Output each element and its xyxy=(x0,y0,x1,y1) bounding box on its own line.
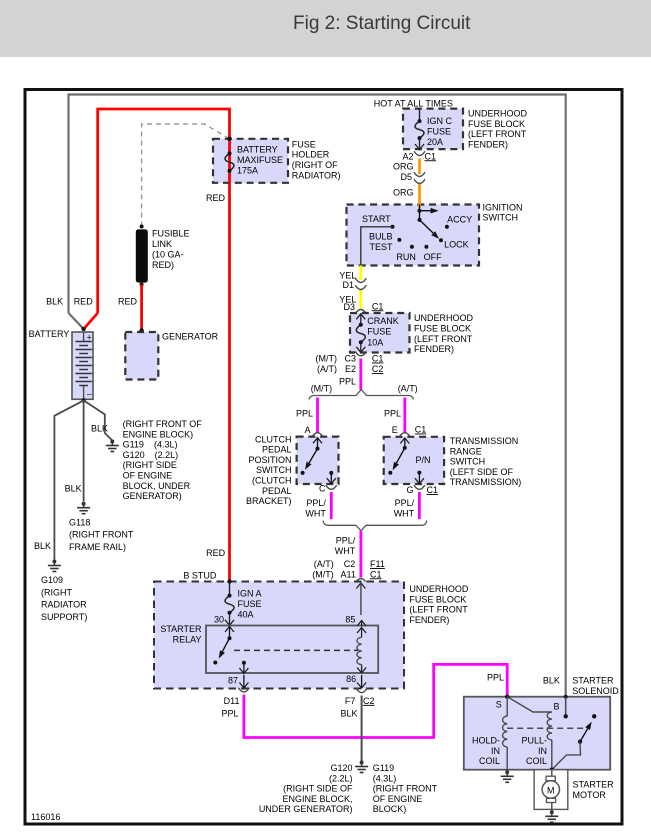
label fusible link xyxy=(152,229,190,271)
svg-text:IGN C: IGN C xyxy=(427,116,453,126)
svg-text:B: B xyxy=(553,702,559,712)
svg-text:BLK: BLK xyxy=(46,297,63,307)
svg-text:F11: F11 xyxy=(370,559,385,569)
svg-text:CLUTCH: CLUTCH xyxy=(255,434,292,444)
relay mechanical dashed link xyxy=(234,649,358,651)
svg-text:C: C xyxy=(319,484,326,494)
relay 87 output xyxy=(239,661,248,688)
svg-text:(RIGHT OF: (RIGHT OF xyxy=(292,160,338,170)
underhood fuse block box (crank fuse) xyxy=(350,313,410,353)
svg-text:FENDER): FENDER) xyxy=(409,615,449,625)
label (M/T) A11 row xyxy=(312,569,356,579)
svg-text:BLK: BLK xyxy=(65,484,82,494)
label C1 (crank exit) xyxy=(372,354,384,364)
connector C2 (F7) xyxy=(356,688,367,692)
label G119 G120 engine block grounds xyxy=(123,419,203,501)
wire YEL ignition switch to crank fuse xyxy=(359,266,362,309)
svg-text:BLOCK): BLOCK) xyxy=(373,804,407,814)
label PPL/WHT (clutch) xyxy=(305,498,326,518)
svg-text:(LEFT SIDE OF: (LEFT SIDE OF xyxy=(450,467,514,477)
svg-text:FUSE BLOCK: FUSE BLOCK xyxy=(409,594,466,604)
svg-text:UNDERHOOD: UNDERHOOD xyxy=(409,584,469,594)
svg-text:(RIGHT: (RIGHT xyxy=(41,587,72,597)
svg-text:GENERATOR): GENERATOR) xyxy=(123,491,182,501)
wire RED fusible link to generator xyxy=(139,285,143,333)
svg-text:SWITCH: SWITCH xyxy=(450,457,486,467)
label D5 xyxy=(400,172,412,182)
svg-text:BATTERY: BATTERY xyxy=(237,145,278,155)
node battery negative junction xyxy=(81,398,85,402)
svg-text:COIL: COIL xyxy=(526,756,547,766)
svg-text:(A/T): (A/T) xyxy=(317,364,337,374)
svg-text:BLK: BLK xyxy=(91,424,108,434)
label BLK (G118 branch) xyxy=(65,484,82,494)
label PPL above split xyxy=(339,377,356,387)
label PPL/WHT (merged) xyxy=(335,536,356,556)
svg-text:G120: G120 xyxy=(330,763,352,773)
label ORG lower xyxy=(393,188,414,198)
svg-text:PPL: PPL xyxy=(487,673,504,683)
svg-text:BATTERY: BATTERY xyxy=(29,329,70,339)
label fuse holder location xyxy=(292,139,341,180)
svg-text:C1: C1 xyxy=(425,151,437,161)
ignition switch box xyxy=(347,205,480,266)
label PPL (A/T branch) xyxy=(384,409,401,419)
svg-text:PEDAL: PEDAL xyxy=(262,486,292,496)
svg-text:30: 30 xyxy=(214,615,224,625)
label 30 terminal xyxy=(214,615,224,625)
svg-text:A2: A2 xyxy=(402,151,413,161)
svg-text:UNDERHOOD: UNDERHOOD xyxy=(414,313,474,323)
wire BLK to G118 xyxy=(83,400,85,501)
svg-text:TRANSMISSION: TRANSMISSION xyxy=(450,436,519,446)
svg-text:M: M xyxy=(547,786,555,796)
label RED (fusible link wire) xyxy=(118,297,138,307)
svg-text:WHT: WHT xyxy=(305,508,326,518)
svg-text:RADIATOR: RADIATOR xyxy=(41,600,87,610)
svg-text:FUSIBLE: FUSIBLE xyxy=(152,229,190,239)
label 85 terminal xyxy=(345,615,355,625)
connector at trans switch exit xyxy=(414,485,425,489)
wire BLK to G109 xyxy=(54,400,83,559)
svg-text:C1: C1 xyxy=(415,425,427,435)
svg-text:G118: G118 xyxy=(69,517,90,527)
connector at clutch switch entry xyxy=(312,433,323,437)
label battery maxifuse value xyxy=(237,145,283,176)
svg-text:(RIGHT SIDE: (RIGHT SIDE xyxy=(123,460,177,470)
svg-text:BRACKET): BRACKET) xyxy=(246,496,292,506)
connector C1 at crank fuse entry xyxy=(355,310,366,314)
svg-text:C1: C1 xyxy=(370,569,382,579)
node S terminal xyxy=(505,695,509,699)
wire dashed gray to fusible link xyxy=(142,124,230,227)
label G120 (2.2L) column xyxy=(259,763,353,814)
svg-text:(4.3L): (4.3L) xyxy=(373,773,397,783)
label C1 (A2 row) xyxy=(425,151,437,161)
split junction brace xyxy=(309,390,414,400)
solenoid mechanical dashed link xyxy=(507,727,584,729)
label BATTERY xyxy=(29,329,70,339)
ground G109 xyxy=(48,560,61,572)
svg-text:E2: E2 xyxy=(345,364,356,374)
svg-text:BULB: BULB xyxy=(369,232,393,242)
wire RED through maxifuse box xyxy=(228,139,231,183)
svg-text:B STUD: B STUD xyxy=(183,571,217,581)
svg-text:WHT: WHT xyxy=(394,508,415,518)
label STARTER MOTOR xyxy=(573,780,615,800)
svg-text:WHT: WHT xyxy=(335,546,356,556)
fuse BATTERY MAXIFUSE 175A xyxy=(225,151,234,173)
node solenoid output junction xyxy=(550,768,554,772)
label B STUD xyxy=(183,571,217,581)
connector at clutch switch exit xyxy=(326,485,337,489)
ground G118 xyxy=(77,502,90,514)
relay switch contact xyxy=(213,627,234,665)
label (A/T) E2 row xyxy=(317,364,356,374)
label (A/T) branch xyxy=(398,384,418,394)
wire PPL/WHT from clutch switch xyxy=(330,492,333,519)
svg-text:E: E xyxy=(392,425,398,435)
label ORG upper xyxy=(393,162,414,172)
label PPL (relay output) xyxy=(221,708,238,718)
svg-text:40A: 40A xyxy=(238,610,254,620)
fusible link (10 GA-RED) xyxy=(136,225,148,287)
svg-text:(M/T): (M/T) xyxy=(312,569,334,579)
svg-text:RADIATOR): RADIATOR) xyxy=(292,170,341,180)
label F11 xyxy=(370,559,385,569)
label S terminal xyxy=(496,699,502,709)
label P/N xyxy=(416,455,431,465)
battery xyxy=(72,332,93,399)
underhood fuse block box (starter relay) xyxy=(154,582,404,689)
svg-text:RANGE: RANGE xyxy=(450,446,482,456)
label underhood fuse block (crank) xyxy=(414,313,474,354)
svg-text:(M/T): (M/T) xyxy=(316,354,338,364)
ground G119/G120 (engine block) xyxy=(106,440,119,452)
fuse holder box (battery maxifuse) xyxy=(213,139,288,183)
svg-text:RED: RED xyxy=(206,548,226,558)
svg-text:UNDER GENERATOR): UNDER GENERATOR) xyxy=(259,804,353,814)
wire RED battery positive to BATTERY MAXIFUSE to B STUD xyxy=(84,109,230,582)
svg-text:C2: C2 xyxy=(372,364,384,374)
svg-text:(A/T): (A/T) xyxy=(314,559,334,569)
wire BLK to G119/G120 xyxy=(84,400,113,440)
label PPL (solenoid) xyxy=(487,673,504,683)
node START contact and wire xyxy=(361,225,395,266)
label underhood fuse block (left front fender) top xyxy=(468,109,528,150)
svg-text:(A/T): (A/T) xyxy=(398,384,418,394)
connector at trans switch entry xyxy=(399,433,410,437)
connector at relay coil entry xyxy=(355,579,366,583)
svg-text:F7: F7 xyxy=(345,696,356,706)
label RED (B STUD wire) xyxy=(206,548,226,558)
svg-text:(CLUTCH: (CLUTCH xyxy=(252,476,292,486)
svg-text:PULL-: PULL- xyxy=(521,736,547,746)
label D3 xyxy=(343,302,355,312)
svg-text:(M/T): (M/T) xyxy=(311,384,333,394)
node maxifuse top junction xyxy=(227,137,231,141)
svg-text:(LEFT FRONT: (LEFT FRONT xyxy=(468,129,527,139)
svg-text:OF ENGINE: OF ENGINE xyxy=(123,471,173,481)
label D1 xyxy=(342,280,354,290)
svg-text:START: START xyxy=(362,214,391,224)
svg-text:C1: C1 xyxy=(372,354,384,364)
svg-text:STARTER: STARTER xyxy=(160,624,202,634)
label IGN A FUSE 40A xyxy=(238,589,262,620)
svg-text:G: G xyxy=(406,485,413,495)
label (A/T) C2 row xyxy=(314,559,356,569)
label PPL (M/T branch) xyxy=(296,409,313,419)
svg-text:HOLDER: HOLDER xyxy=(292,150,330,160)
wire battery positive BLK cable loop to starter solenoid B xyxy=(69,95,566,717)
svg-text:(LEFT FRONT: (LEFT FRONT xyxy=(409,605,468,615)
svg-text:G120 (2.2L): G120 (2.2L) xyxy=(123,450,179,460)
svg-text:RED): RED) xyxy=(152,260,174,270)
svg-text:YEL: YEL xyxy=(339,270,356,280)
label clutch pedal position switch xyxy=(246,434,292,506)
label OFF and contact xyxy=(424,245,442,262)
svg-text:20A: 20A xyxy=(427,137,443,147)
wire PPL crank fuse to split xyxy=(359,359,362,391)
svg-text:STARTER: STARTER xyxy=(572,676,614,686)
transmission range switch box xyxy=(384,437,444,484)
svg-text:FUSE BLOCK: FUSE BLOCK xyxy=(468,119,525,129)
svg-text:(RIGHT FRONT: (RIGHT FRONT xyxy=(69,530,134,540)
label (M/T) branch xyxy=(311,384,333,394)
svg-text:S: S xyxy=(496,699,502,709)
svg-text:ORG: ORG xyxy=(393,188,414,198)
svg-text:PPL/: PPL/ xyxy=(395,498,415,508)
svg-text:IN: IN xyxy=(538,746,547,756)
label BLK (solenoid B wire) xyxy=(543,676,560,686)
relay 86 output xyxy=(357,675,366,688)
svg-text:PPL/: PPL/ xyxy=(336,536,356,546)
svg-text:ORG: ORG xyxy=(393,162,414,172)
svg-text:P/N: P/N xyxy=(416,455,431,465)
svg-text:D1: D1 xyxy=(342,280,354,290)
label BLK (relay output) xyxy=(340,708,357,718)
ground hold-in coil xyxy=(501,770,514,782)
svg-text:SOLENOID: SOLENOID xyxy=(572,686,619,696)
svg-text:RED: RED xyxy=(74,297,94,307)
svg-text:TEST: TEST xyxy=(369,242,393,252)
label transmission range switch xyxy=(450,436,522,487)
label C1 (trans exit) xyxy=(427,485,439,495)
label G118 (right front frame rail) xyxy=(69,517,134,552)
label C2 (relay output) xyxy=(363,696,375,706)
label B terminal xyxy=(553,702,559,712)
label IGNITION SWITCH xyxy=(483,202,523,222)
svg-text:IN: IN xyxy=(491,746,500,756)
svg-text:POSITION: POSITION xyxy=(248,455,291,465)
pull-in coil winding xyxy=(547,712,552,770)
label HOLD-IN COIL xyxy=(472,736,500,767)
label YEL lower xyxy=(339,295,356,305)
wire ORG IGN C fuse to ignition switch xyxy=(418,159,421,207)
label generator xyxy=(162,332,219,342)
label BULB TEST and contact xyxy=(369,232,401,252)
svg-text:FUSE: FUSE xyxy=(238,599,262,609)
svg-text:ENGINE BLOCK): ENGINE BLOCK) xyxy=(123,429,194,439)
svg-text:C2: C2 xyxy=(363,696,375,706)
svg-text:87: 87 xyxy=(228,676,238,686)
connector D1 in-line xyxy=(355,278,366,289)
svg-text:PPL: PPL xyxy=(296,409,313,419)
label YEL upper xyxy=(339,270,356,280)
label CRANK FUSE 10A xyxy=(367,316,399,348)
label D11 xyxy=(224,696,240,706)
connector D5 in-line xyxy=(414,172,425,183)
label RED below maxifuse xyxy=(206,193,226,203)
ignition switch internal wiper xyxy=(418,205,440,239)
svg-text:PPL: PPL xyxy=(384,409,401,419)
wire PPL M/T branch xyxy=(316,398,319,434)
starter relay inner box xyxy=(206,626,378,674)
label C2 (crank exit) xyxy=(372,364,384,374)
svg-text:GENERATOR: GENERATOR xyxy=(162,332,219,342)
svg-text:UNDERHOOD: UNDERHOOD xyxy=(468,109,528,119)
svg-text:FENDER): FENDER) xyxy=(414,344,454,354)
svg-text:FUSE: FUSE xyxy=(292,139,316,149)
label STARTER SOLENOID xyxy=(572,676,619,696)
svg-text:RED: RED xyxy=(206,193,226,203)
label STARTER RELAY xyxy=(160,624,202,644)
svg-text:BLK: BLK xyxy=(34,541,51,551)
label BLK battery cable xyxy=(46,297,63,307)
svg-text:CRANK: CRANK xyxy=(367,316,399,326)
svg-text:C1: C1 xyxy=(372,301,384,311)
connector D11 xyxy=(238,688,249,692)
label C1 (relay entry) xyxy=(370,569,382,579)
label IGN C FUSE 20A xyxy=(427,116,453,147)
label G109 (right radiator support) xyxy=(41,575,87,622)
label LOCK and contact xyxy=(439,238,469,249)
svg-text:STARTER: STARTER xyxy=(573,780,615,790)
svg-text:MOTOR: MOTOR xyxy=(573,790,607,800)
svg-text:ENGINE BLOCK,: ENGINE BLOCK, xyxy=(282,794,352,804)
svg-text:(2.2L): (2.2L) xyxy=(329,773,353,783)
svg-text:OF ENGINE: OF ENGINE xyxy=(373,794,423,804)
svg-text:FUSE: FUSE xyxy=(427,127,451,137)
svg-text:IGN A: IGN A xyxy=(238,589,262,599)
svg-text:C2: C2 xyxy=(344,559,356,569)
svg-text:D3: D3 xyxy=(343,302,355,312)
svg-text:HOT AT ALL TIMES: HOT AT ALL TIMES xyxy=(374,99,453,109)
hold-in coil winding xyxy=(503,697,508,770)
connector below crank fuse xyxy=(355,352,366,356)
svg-text:SWITCH: SWITCH xyxy=(256,465,292,475)
label C1 (crank fuse entry) xyxy=(372,301,384,311)
underhood fuse block box (IGN C fuse) xyxy=(403,109,463,150)
svg-text:ACCY: ACCY xyxy=(447,215,472,225)
svg-text:COIL: COIL xyxy=(479,756,500,766)
svg-text:PPL: PPL xyxy=(221,708,238,718)
label PULL-IN COIL xyxy=(521,736,547,767)
svg-text:116016: 116016 xyxy=(31,812,60,822)
svg-text:(RIGHT SIDE OF: (RIGHT SIDE OF xyxy=(283,784,353,794)
label RED battery wire xyxy=(74,297,94,307)
svg-text:BLK: BLK xyxy=(543,676,560,686)
label BLK (G109 branch) xyxy=(34,541,51,551)
label F7 xyxy=(345,696,356,706)
svg-text:BLOCK, UNDER: BLOCK, UNDER xyxy=(123,481,191,491)
solenoid switch contact xyxy=(552,714,597,770)
svg-text:A: A xyxy=(304,425,310,435)
trans switch contacts xyxy=(388,438,424,484)
wire ORG entering ignition switch xyxy=(418,203,421,208)
svg-text:86: 86 xyxy=(346,674,356,684)
label A terminal xyxy=(304,425,310,435)
svg-text:MAXIFUSE: MAXIFUSE xyxy=(237,155,283,165)
svg-text:RUN: RUN xyxy=(396,252,416,262)
fuse CRANK FUSE 10A xyxy=(356,314,365,353)
svg-text:(LEFT FRONT: (LEFT FRONT xyxy=(414,334,473,344)
fuse IGN A FUSE 40A xyxy=(225,582,234,626)
node battery positive junction xyxy=(81,327,85,331)
svg-text:LOCK: LOCK xyxy=(444,239,469,249)
svg-text:PPL: PPL xyxy=(339,377,356,387)
ground starter motor xyxy=(545,810,558,822)
svg-text:D5: D5 xyxy=(400,172,412,182)
label BLK (G119/G120 branch) xyxy=(91,424,108,434)
svg-text:TRANSMISSION): TRANSMISSION) xyxy=(450,477,522,487)
wire entry to relay coil xyxy=(356,583,365,615)
svg-text:(10 GA-: (10 GA- xyxy=(152,250,184,260)
svg-text:HOLD-: HOLD- xyxy=(472,736,500,746)
node B STUD xyxy=(227,579,231,583)
label G119 (4.3L) column xyxy=(373,763,438,814)
starter motor M xyxy=(542,770,559,812)
label 86 terminal xyxy=(346,674,356,684)
ground G120/G119 xyxy=(355,761,368,773)
label underhood fuse block (relay) xyxy=(409,584,469,625)
svg-text:C1: C1 xyxy=(427,485,439,495)
label PPL/WHT (trans) xyxy=(394,498,415,518)
svg-text:(RIGHT FRONT OF: (RIGHT FRONT OF xyxy=(123,419,203,429)
starter solenoid box xyxy=(464,697,610,770)
relay coil 85-86 xyxy=(357,621,366,674)
svg-text:LINK: LINK xyxy=(152,239,172,249)
svg-text:FRAME RAIL): FRAME RAIL) xyxy=(69,542,126,552)
svg-text:G109: G109 xyxy=(41,575,63,585)
clutch pedal position switch box xyxy=(297,437,339,484)
clutch switch contacts xyxy=(301,438,336,484)
node B terminal wire end xyxy=(564,695,568,719)
starter motor box xyxy=(534,770,568,810)
svg-text:175A: 175A xyxy=(237,166,258,176)
generator xyxy=(125,332,158,380)
svg-text:FUSE: FUSE xyxy=(367,327,391,337)
svg-text:–: – xyxy=(87,389,92,399)
svg-text:10A: 10A xyxy=(367,337,383,347)
svg-text:IGNITION: IGNITION xyxy=(483,202,523,212)
svg-text:G119 (4.3L): G119 (4.3L) xyxy=(123,440,178,450)
svg-text:G119: G119 xyxy=(373,763,394,773)
svg-text:PPL/: PPL/ xyxy=(306,498,326,508)
svg-text:C3: C3 xyxy=(344,354,356,364)
svg-text:FUSE BLOCK: FUSE BLOCK xyxy=(414,324,471,334)
label G terminal xyxy=(406,485,413,495)
svg-text:PEDAL: PEDAL xyxy=(262,445,292,455)
wire BLK relay 86 to G120/G119 xyxy=(361,696,363,762)
svg-text:OFF: OFF xyxy=(424,252,442,262)
label E terminal xyxy=(392,425,398,435)
label START xyxy=(362,214,391,224)
label (M/T) C3 row xyxy=(316,354,357,364)
svg-text:D11: D11 xyxy=(224,696,240,706)
label RUN and contact xyxy=(396,245,416,262)
svg-text:85: 85 xyxy=(345,615,355,625)
